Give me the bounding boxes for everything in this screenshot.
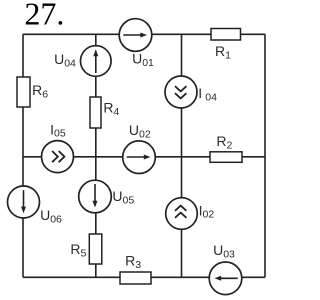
svg-text:U04: U04	[54, 51, 76, 70]
wire bottom horizontal	[23, 276, 265, 278]
source U02	[123, 122, 156, 173]
resistor R2	[210, 133, 242, 162]
wire middle vertical	[95, 34, 97, 277]
resistor R5	[70, 234, 101, 264]
svg-text:I04: I04	[198, 85, 217, 103]
wire right vertical	[264, 34, 266, 277]
wire left vertical	[22, 34, 24, 277]
source U04	[54, 46, 111, 77]
resistor R1	[211, 29, 241, 62]
svg-text:U01: U01	[132, 51, 154, 70]
svg-text:I05: I05	[50, 121, 66, 139]
resistor R3	[120, 252, 151, 284]
source I04	[165, 76, 217, 108]
svg-text:R4: R4	[103, 100, 119, 119]
svg-text:R6: R6	[32, 82, 48, 101]
source I02	[166, 198, 215, 230]
svg-text:U06: U06	[40, 207, 62, 226]
source I05	[42, 121, 74, 172]
svg-text:U05: U05	[112, 188, 134, 207]
svg-text:R3: R3	[125, 252, 141, 271]
source U01	[119, 19, 154, 69]
source U03	[209, 242, 242, 294]
svg-text:R1: R1	[215, 43, 231, 62]
svg-text:R2: R2	[216, 133, 232, 152]
svg-text:R5: R5	[70, 241, 86, 259]
svg-text:U02: U02	[129, 122, 151, 141]
source U06	[8, 186, 63, 225]
svg-text:27.: 27.	[24, 0, 64, 32]
resistor R4	[90, 97, 120, 128]
wire second-right vertical	[181, 34, 183, 277]
resistor R6	[17, 77, 48, 107]
svg-text:I02: I02	[199, 202, 215, 220]
wire middle horizontal	[23, 156, 265, 158]
wire top horizontal	[23, 33, 265, 35]
source U05	[79, 180, 135, 213]
svg-text:U03: U03	[213, 242, 235, 261]
